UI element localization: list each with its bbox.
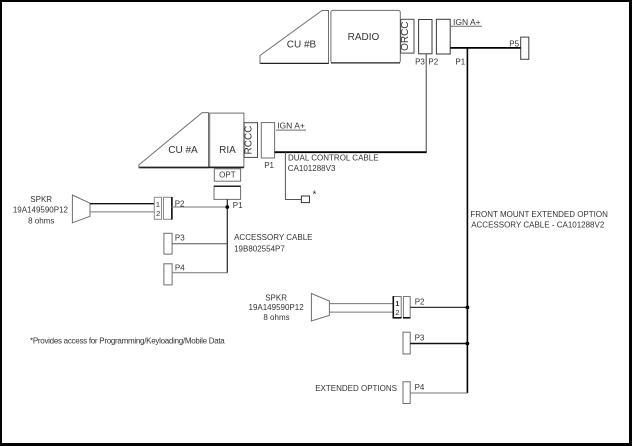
svg-text:ACCESSORY CABLE - CA101288V2: ACCESSORY CABLE - CA101288V2 <box>471 221 605 230</box>
svg-text:19A149590P12: 19A149590P12 <box>13 205 69 214</box>
svg-text:P2: P2 <box>175 200 185 209</box>
svg-text:SPKR: SPKR <box>30 195 52 204</box>
svg-text:IGN A+: IGN A+ <box>453 17 481 27</box>
svg-text:P2: P2 <box>415 298 425 307</box>
svg-text:CA101288V3: CA101288V3 <box>288 164 336 173</box>
svg-text:P1: P1 <box>233 201 243 210</box>
svg-text:IGN A+: IGN A+ <box>277 120 305 130</box>
svg-text:2: 2 <box>395 308 399 317</box>
svg-text:P3: P3 <box>175 234 185 243</box>
svg-text:CU #A: CU #A <box>168 145 198 156</box>
svg-text:P3: P3 <box>415 334 425 343</box>
svg-text:8 ohms: 8 ohms <box>28 216 54 225</box>
svg-text:DUAL CONTROL CABLE: DUAL CONTROL CABLE <box>288 154 379 163</box>
svg-text:P4: P4 <box>175 263 185 272</box>
svg-text:19A149590P12: 19A149590P12 <box>249 303 305 312</box>
svg-text:ORCC: ORCC <box>400 21 411 50</box>
svg-text:FRONT MOUNT EXTENDED OPTION: FRONT MOUNT EXTENDED OPTION <box>470 210 608 219</box>
svg-text:EXTENDED OPTIONS: EXTENDED OPTIONS <box>315 384 397 393</box>
svg-text:P5: P5 <box>509 39 519 48</box>
svg-text:8 ohms: 8 ohms <box>263 313 289 322</box>
svg-text:P4: P4 <box>415 383 425 392</box>
svg-text:ACCESSORY CABLE: ACCESSORY CABLE <box>234 233 312 242</box>
svg-text:1: 1 <box>156 200 160 209</box>
svg-text:P2: P2 <box>428 57 438 66</box>
svg-text:RIA: RIA <box>219 145 236 156</box>
svg-text:*: * <box>312 190 316 201</box>
svg-text:19B802554P7: 19B802554P7 <box>234 245 285 254</box>
svg-text:P1: P1 <box>455 57 465 66</box>
svg-text:*Provides access for Programmi: *Provides access for Programming/Keyload… <box>30 337 225 346</box>
svg-text:RADIO: RADIO <box>348 32 380 43</box>
svg-text:RCCC: RCCC <box>244 126 255 155</box>
svg-text:CU #B: CU #B <box>287 40 317 51</box>
svg-text:P3: P3 <box>415 57 425 66</box>
svg-text:OPT: OPT <box>219 170 236 179</box>
svg-text:P1: P1 <box>264 161 274 170</box>
svg-text:1: 1 <box>395 299 399 308</box>
svg-text:2: 2 <box>156 209 160 218</box>
svg-text:SPKR: SPKR <box>265 294 287 303</box>
